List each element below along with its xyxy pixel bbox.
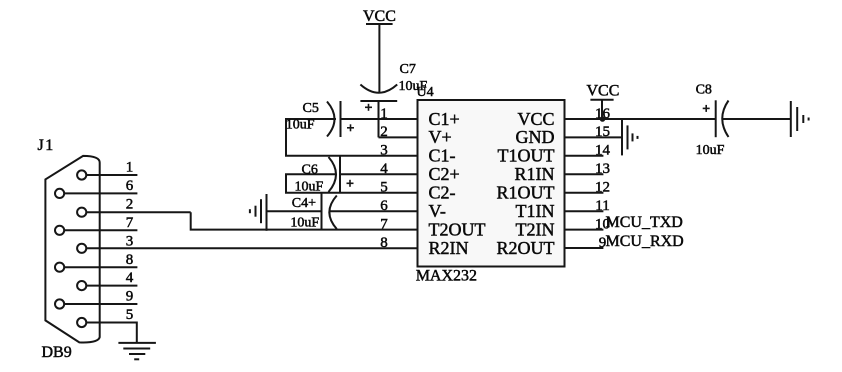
ground (left of C4) — [250, 194, 267, 231]
wire J1 pin2 to jog — [86, 211, 190, 213]
svg-text:9: 9 — [126, 289, 134, 305]
svg-text:5: 5 — [126, 307, 134, 323]
svg-text:C6: C6 — [302, 163, 318, 178]
svg-text:J1: J1 — [38, 137, 55, 154]
svg-text:10uF: 10uF — [286, 118, 315, 133]
svg-text:VCC: VCC — [517, 109, 554, 129]
svg-text:T2OUT: T2OUT — [429, 219, 486, 239]
svg-text:10uF: 10uF — [295, 179, 324, 194]
svg-text:4: 4 — [126, 270, 134, 286]
pin numbers U1 left — [380, 106, 388, 251]
svg-text:T1OUT: T1OUT — [498, 146, 555, 166]
wire pin4 C2+ — [340, 173, 418, 175]
capacitor C6 — [295, 157, 354, 195]
svg-text:10uF: 10uF — [696, 143, 725, 158]
svg-text:T2IN: T2IN — [516, 219, 555, 239]
power VCC (right) — [587, 83, 620, 119]
svg-text:VCC: VCC — [363, 8, 396, 25]
svg-text:7: 7 — [126, 215, 134, 231]
svg-text:C8: C8 — [696, 83, 712, 98]
wire J1 pin1 stub — [86, 174, 137, 176]
wire J1 pin4 stub — [86, 285, 137, 287]
wire pin16 VCC row — [565, 118, 716, 120]
wire pin1 C1+ — [341, 118, 418, 120]
op-amp U1 chip body MAX232 — [416, 100, 565, 285]
wire J1 pin8 stub — [64, 266, 137, 268]
svg-text:MCU_TXD: MCU_TXD — [606, 214, 683, 231]
capacitor C4 — [267, 193, 337, 231]
svg-text:R2OUT: R2OUT — [497, 238, 555, 258]
wire pin15 GND — [565, 136, 623, 138]
svg-text:1: 1 — [126, 160, 134, 176]
wire pin13 stub — [565, 173, 604, 175]
svg-text:C5: C5 — [303, 101, 319, 116]
wire pin8 R2IN from DB9 pin3 — [86, 247, 417, 249]
wire pin9 stub — [565, 247, 604, 249]
wire J1 pin6 stub — [64, 192, 137, 194]
connector J1 DB9 outline — [45, 156, 99, 343]
svg-text:6: 6 — [126, 178, 134, 194]
svg-text:C1-: C1- — [429, 146, 456, 166]
power VCC (top) — [363, 8, 396, 92]
svg-text:V+: V+ — [429, 127, 452, 147]
ground (pin15, pointing right) — [622, 119, 638, 155]
svg-text:U4: U4 — [417, 85, 434, 100]
svg-text:R1IN: R1IN — [515, 164, 555, 184]
wire J1 pin9 stub — [64, 303, 137, 305]
svg-text:10uF: 10uF — [290, 216, 319, 231]
svg-text:GND: GND — [516, 127, 555, 147]
svg-text:T1IN: T1IN — [516, 201, 555, 221]
wire pin14 stub — [565, 155, 604, 157]
wire J1 pin5 to ground — [86, 323, 137, 343]
wire pin3 C1- loop — [286, 119, 418, 156]
pin numbers U1 right — [595, 106, 611, 251]
wire pin5 C2- loop — [286, 174, 418, 192]
wire J1 pin7 stub — [64, 229, 137, 231]
svg-text:R1OUT: R1OUT — [497, 183, 555, 203]
svg-text:2: 2 — [126, 197, 134, 213]
wire pin2 V+ — [379, 136, 418, 138]
svg-text:C4+: C4+ — [292, 196, 316, 211]
svg-text:C2-: C2- — [429, 183, 456, 203]
wire pin6 V- — [330, 210, 418, 212]
svg-text:3: 3 — [126, 233, 134, 249]
wire pin7 T2OUT from DB9 pin2 jog — [191, 212, 418, 229]
ground (below J1 pin5) — [118, 343, 155, 359]
wire pin10 stub — [565, 229, 604, 231]
wire pin12 stub — [565, 192, 604, 194]
wire C8 to ground — [723, 118, 791, 120]
capacitor C7 — [360, 62, 427, 138]
svg-text:VCC: VCC — [587, 83, 620, 100]
capacitor C5 — [286, 101, 354, 137]
svg-text:V-: V- — [429, 201, 446, 221]
svg-text:R2IN: R2IN — [429, 238, 469, 258]
svg-text:8: 8 — [126, 252, 134, 268]
svg-text:C2+: C2+ — [429, 164, 460, 184]
svg-text:C1+: C1+ — [429, 109, 460, 129]
wire pin11 stub — [565, 210, 604, 212]
svg-text:C7: C7 — [400, 62, 416, 77]
svg-text:MAX232: MAX232 — [416, 268, 477, 285]
ground (right of C8, pointing right) — [791, 101, 809, 137]
J1 pin numbers — [126, 160, 134, 324]
junction dot pin16/VCC — [600, 116, 606, 122]
svg-text:MCU_RXD: MCU_RXD — [606, 233, 684, 250]
J1 pin circles — [55, 170, 86, 327]
svg-text:DB9: DB9 — [42, 344, 72, 361]
capacitor C8 — [696, 83, 729, 158]
